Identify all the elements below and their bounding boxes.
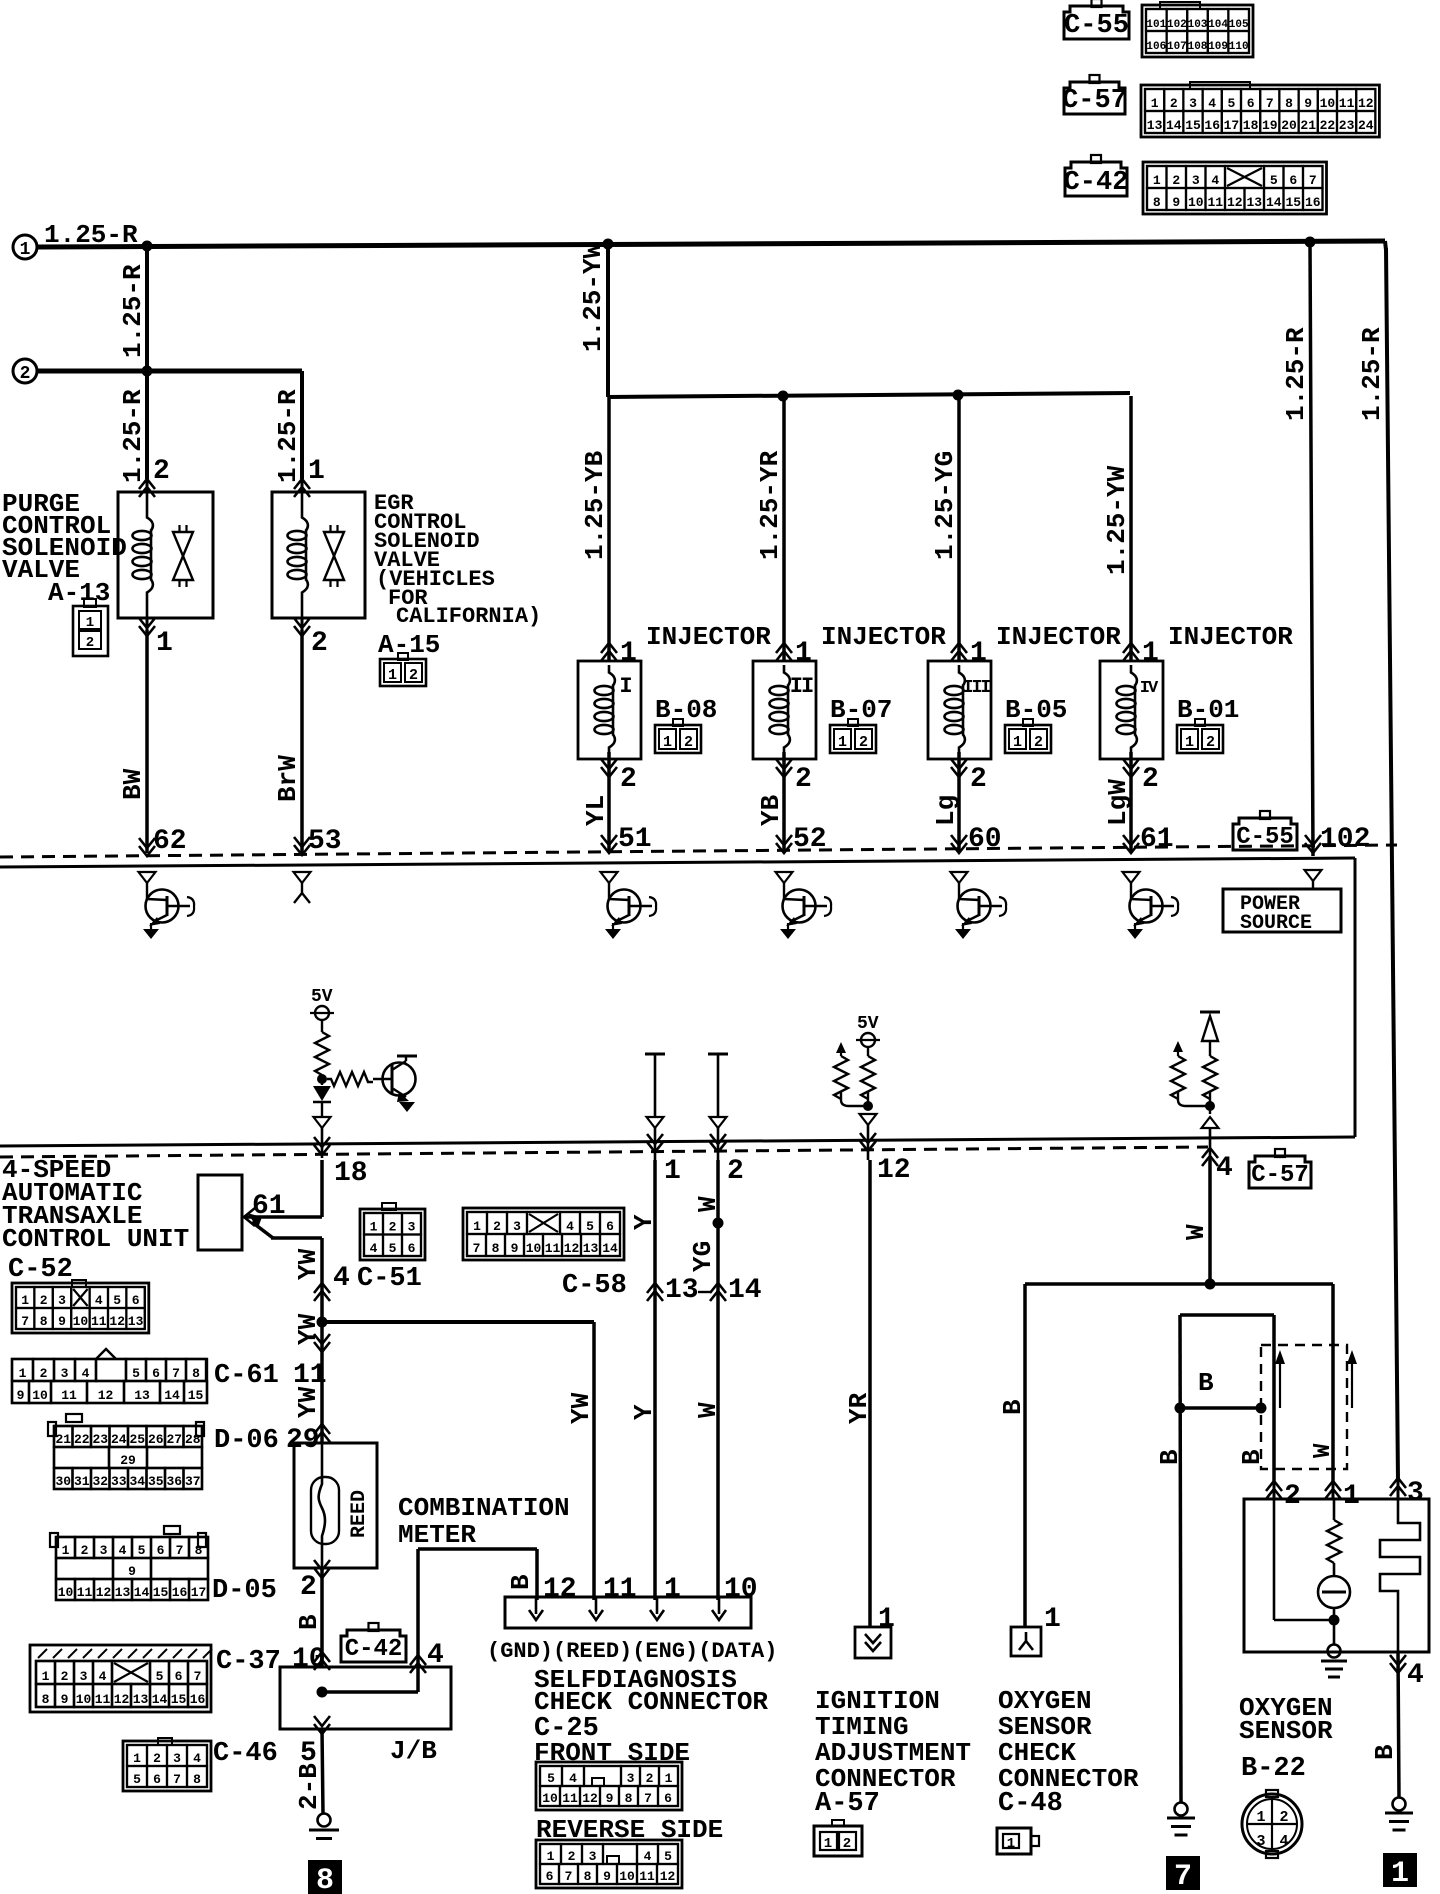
svg-text:101: 101 <box>1146 19 1166 31</box>
svg-text:2: 2 <box>86 635 94 651</box>
wire YW to check connector pin 11 <box>592 1322 596 1600</box>
svg-text:3: 3 <box>80 1669 88 1684</box>
svg-text:5: 5 <box>586 1219 594 1234</box>
svg-text:1.25-R: 1.25-R <box>273 389 303 483</box>
svg-text:YL: YL <box>581 795 611 826</box>
svg-text:11: 11 <box>639 1869 655 1884</box>
C-25 reverse side grid <box>536 1840 682 1888</box>
svg-text:1.25-YG: 1.25-YG <box>930 451 960 560</box>
injector III (B-05) box <box>928 661 991 759</box>
svg-text:Y: Y <box>629 1214 659 1230</box>
svg-text:B: B <box>294 1614 324 1630</box>
svg-text:1: 1 <box>473 1219 481 1234</box>
svg-text:2: 2 <box>61 1669 69 1684</box>
svg-text:14: 14 <box>1266 195 1282 210</box>
svg-text:30: 30 <box>55 1474 71 1489</box>
svg-text:3: 3 <box>408 1220 416 1235</box>
svg-text:12: 12 <box>660 1869 676 1884</box>
svg-text:10: 10 <box>76 1692 92 1707</box>
svg-text:1.25-R: 1.25-R <box>1357 327 1387 421</box>
svg-text:4: 4 <box>99 1669 107 1684</box>
svg-text:11: 11 <box>293 1360 327 1391</box>
svg-text:9: 9 <box>1172 195 1180 210</box>
sensor ground loop wire <box>1180 1313 1274 1317</box>
EGR valve coil <box>302 492 308 531</box>
svg-text:13: 13 <box>133 1692 149 1707</box>
wire Lg to ECU pin 60 <box>957 752 961 852</box>
svg-text:60: 60 <box>968 824 1002 855</box>
svg-text:4: 4 <box>370 1241 378 1256</box>
pin 62 chevron <box>139 838 155 856</box>
junction dot in J/B <box>317 1687 328 1698</box>
svg-text:C-52: C-52 <box>8 1255 73 1285</box>
svg-text:D-05: D-05 <box>212 1576 277 1606</box>
svg-text:1.25-YB: 1.25-YB <box>580 450 610 560</box>
svg-text:17: 17 <box>1224 118 1240 133</box>
svg-text:1: 1 <box>62 1543 70 1558</box>
injector IV (B-01) box <box>1100 661 1163 759</box>
svg-text:1: 1 <box>20 240 31 260</box>
svg-text:5V: 5V <box>311 987 333 1007</box>
svg-text:5: 5 <box>156 1669 164 1684</box>
svg-text:9: 9 <box>511 1241 519 1256</box>
svg-text:INJECTOR: INJECTOR <box>821 622 946 652</box>
svg-text:9: 9 <box>58 1314 66 1329</box>
svg-text:1: 1 <box>1256 1809 1265 1826</box>
svg-text:2: 2 <box>684 734 693 751</box>
svg-text:14: 14 <box>1166 118 1182 133</box>
wire 1.25-R right edge to oxygen sensor heater <box>1385 241 1386 250</box>
injector IV pin 1 chevron <box>1123 643 1139 661</box>
svg-text:16: 16 <box>190 1692 206 1707</box>
svg-text:2: 2 <box>153 1751 161 1766</box>
wire 1.25-R to ECU pin 102 <box>1310 242 1313 856</box>
wire W from ECU pin 4 <box>1208 1160 1212 1284</box>
svg-text:108: 108 <box>1188 41 1208 53</box>
svg-text:2: 2 <box>1142 764 1159 795</box>
check connector pin arrow x536 <box>535 1597 538 1614</box>
svg-text:2: 2 <box>1206 734 1215 751</box>
svg-text:14: 14 <box>728 1275 762 1306</box>
svg-text:1: 1 <box>86 615 94 631</box>
svg-text:18: 18 <box>1243 118 1259 133</box>
svg-text:5: 5 <box>1270 173 1278 188</box>
svg-text:1: 1 <box>795 638 812 669</box>
svg-text:2: 2 <box>409 667 418 684</box>
node 2 (circled) <box>13 359 37 383</box>
svg-text:1: 1 <box>308 456 325 487</box>
svg-text:II: II <box>790 674 813 699</box>
connector C-58 grid <box>463 1208 624 1260</box>
svg-text:22: 22 <box>1320 118 1336 133</box>
injector III pin 1 chevron <box>951 643 967 661</box>
svg-text:A-13: A-13 <box>48 578 110 608</box>
sensor cell symbol <box>1318 1576 1350 1608</box>
svg-text:2: 2 <box>620 764 637 795</box>
svg-text:B-08: B-08 <box>655 695 717 725</box>
pin 53 stub <box>294 872 311 883</box>
svg-text:1.25-YR: 1.25-YR <box>755 450 785 560</box>
svg-text:4: 4 <box>95 1293 103 1308</box>
wire 1.25-YR to injector II <box>782 396 786 661</box>
svg-text:5: 5 <box>138 1543 146 1558</box>
wire 1.25-YW from bus1 <box>606 244 610 397</box>
ECU connector dashed line (top) <box>0 845 1397 857</box>
svg-text:1: 1 <box>1343 1481 1360 1512</box>
svg-text:2: 2 <box>1284 1481 1301 1512</box>
svg-text:1: 1 <box>824 1836 832 1852</box>
svg-text:11: 11 <box>603 1574 637 1605</box>
sensor ground (case) <box>1328 1645 1341 1658</box>
pin 102 chevron <box>1305 835 1321 853</box>
svg-text:BrW: BrW <box>273 755 303 802</box>
junction dot bus2 <box>142 366 153 377</box>
svg-text:8: 8 <box>1153 195 1161 210</box>
svg-text:10: 10 <box>292 1644 326 1675</box>
svg-text:110: 110 <box>1229 41 1249 53</box>
purge valve pin 1 exit chevron <box>146 618 149 636</box>
svg-text:7: 7 <box>1309 173 1317 188</box>
svg-text:C-46: C-46 <box>213 1739 278 1769</box>
pin 18 chevron <box>314 1137 330 1155</box>
wire 1.25-R x147 bus2 to purge valve <box>145 371 149 479</box>
connector C-57 tag <box>1064 82 1125 114</box>
svg-text:B: B <box>1198 1368 1214 1398</box>
svg-text:1: 1 <box>620 638 637 669</box>
coupling arrow right <box>1351 1362 1353 1408</box>
C-57 tag at pin 4 <box>1249 1156 1311 1188</box>
svg-text:1: 1 <box>1013 734 1022 751</box>
C-42 tag at junction box <box>341 1630 406 1662</box>
oxygen sensor pin chevrons <box>1266 1481 1282 1499</box>
svg-text:27: 27 <box>166 1432 182 1447</box>
C-55 tag at pin 102 <box>1233 818 1297 850</box>
svg-text:C-57: C-57 <box>1062 86 1127 116</box>
svg-text:SOURCE: SOURCE <box>1240 912 1312 935</box>
svg-text:9: 9 <box>606 1791 614 1806</box>
self-diagnosis check connector bar <box>505 1597 751 1628</box>
transistor (pin 18 driver) <box>383 1063 416 1096</box>
svg-text:7: 7 <box>172 1366 180 1381</box>
EGR valve pin 2 exit chevron <box>301 618 304 636</box>
svg-text:2: 2 <box>568 1849 576 1864</box>
junction dot pin12 <box>863 1101 873 1111</box>
svg-text:10: 10 <box>1320 96 1336 111</box>
svg-text:W: W <box>1181 1224 1211 1240</box>
purge valve coil <box>147 492 153 531</box>
svg-text:10: 10 <box>1188 195 1204 210</box>
svg-text:4: 4 <box>644 1849 652 1864</box>
svg-text:12: 12 <box>1358 96 1374 111</box>
purge valve pin 2 entry chevron <box>139 479 155 497</box>
svg-text:4: 4 <box>333 1263 350 1294</box>
svg-text:3: 3 <box>513 1219 521 1234</box>
svg-text:24: 24 <box>1358 118 1374 133</box>
svg-text:1: 1 <box>21 1293 29 1308</box>
svg-text:6: 6 <box>153 1772 161 1787</box>
ground reference 8 <box>308 1860 342 1894</box>
svg-text:5: 5 <box>133 1772 141 1787</box>
svg-text:2: 2 <box>1170 96 1178 111</box>
svg-text:1: 1 <box>664 1574 681 1605</box>
injector III coil <box>959 665 965 686</box>
injector I pin 1 chevron <box>601 643 617 661</box>
svg-text:2: 2 <box>40 1293 48 1308</box>
C-37 pin 10 chevron <box>314 1652 330 1670</box>
svg-text:1: 1 <box>838 734 847 751</box>
svg-text:B: B <box>1370 1744 1400 1760</box>
svg-text:15: 15 <box>1185 118 1201 133</box>
junction dot oxygen branch <box>1205 1279 1216 1290</box>
connector icon A-15 (1|2) <box>380 659 426 686</box>
connector C-46 grid <box>123 1741 211 1791</box>
ECU box top edge <box>0 858 1355 867</box>
svg-text:15: 15 <box>153 1585 169 1600</box>
svg-text:3: 3 <box>58 1293 66 1308</box>
svg-text:10: 10 <box>526 1241 542 1256</box>
check connector pin arrow x657 <box>656 1597 659 1614</box>
svg-text:3: 3 <box>1407 1478 1424 1509</box>
svg-text:4: 4 <box>119 1543 127 1558</box>
svg-text:6: 6 <box>152 1366 160 1381</box>
svg-text:6: 6 <box>175 1669 183 1684</box>
svg-text:A-15: A-15 <box>378 630 440 660</box>
svg-text:1: 1 <box>1153 173 1161 188</box>
svg-text:6: 6 <box>408 1241 416 1256</box>
svg-text:C-61: C-61 <box>214 1361 279 1391</box>
svg-text:16: 16 <box>1204 118 1220 133</box>
svg-text:C-57: C-57 <box>1251 1162 1309 1189</box>
junction dot bus1/injector branch <box>603 239 614 250</box>
POWER SOURCE box <box>1223 889 1341 932</box>
svg-text:10: 10 <box>73 1314 89 1329</box>
svg-text:11: 11 <box>562 1791 578 1806</box>
svg-text:12: 12 <box>543 1574 577 1605</box>
D-05 pin 2 chevron <box>320 1568 324 1667</box>
svg-text:14: 14 <box>164 1388 180 1403</box>
svg-text:INJECTOR: INJECTOR <box>1168 622 1293 652</box>
wire W to oxygen sensor pin 1 <box>1331 1284 1335 1481</box>
svg-text:8: 8 <box>193 1772 201 1787</box>
junction block J/B box <box>280 1667 451 1729</box>
svg-text:5: 5 <box>547 1771 555 1786</box>
svg-text:11: 11 <box>61 1388 77 1403</box>
ECU box bottom edge <box>0 1137 1355 1146</box>
svg-text:5: 5 <box>389 1241 397 1256</box>
svg-text:7: 7 <box>1266 96 1274 111</box>
svg-text:1: 1 <box>1044 1604 1061 1635</box>
svg-text:21: 21 <box>55 1432 71 1447</box>
svg-text:102: 102 <box>1167 19 1187 31</box>
svg-text:3: 3 <box>589 1849 597 1864</box>
ground (heater) <box>1393 1798 1406 1811</box>
transaxle pin 61 arrow <box>244 1208 255 1226</box>
svg-text:11: 11 <box>91 1314 107 1329</box>
svg-text:6: 6 <box>132 1293 140 1308</box>
svg-text:4: 4 <box>1407 1660 1424 1691</box>
junction dot bus1/purge branch <box>142 241 153 252</box>
svg-text:107: 107 <box>1167 41 1187 53</box>
svg-text:36: 36 <box>166 1474 182 1489</box>
svg-text:13: 13 <box>1147 118 1163 133</box>
svg-text:6: 6 <box>1289 173 1297 188</box>
junction dot bus1/power-source branch <box>1305 237 1316 248</box>
svg-text:2: 2 <box>20 364 31 384</box>
ECU pin 4 triangle (up) <box>1209 1110 1211 1114</box>
ECU connector dashed line (bottom) <box>0 1147 1208 1157</box>
svg-text:METER: METER <box>398 1520 476 1550</box>
injector I (B-08) box <box>578 661 641 759</box>
svg-text:COMBINATION: COMBINATION <box>398 1493 570 1523</box>
driver transistor for pin 62 <box>139 872 156 883</box>
svg-text:5: 5 <box>664 1849 672 1864</box>
svg-text:4: 4 <box>1216 1153 1233 1184</box>
svg-text:6: 6 <box>1247 96 1255 111</box>
svg-text:6: 6 <box>606 1219 614 1234</box>
svg-text:2: 2 <box>843 1836 851 1852</box>
svg-text:YW: YW <box>293 1386 323 1418</box>
connector icon B-22 (round) <box>1242 1794 1302 1854</box>
svg-text:1.25-YW: 1.25-YW <box>1102 465 1132 575</box>
svg-text:1: 1 <box>42 1669 50 1684</box>
pin 53 chevron <box>294 837 310 855</box>
wire BW to ECU pin 62 <box>145 630 149 853</box>
svg-text:1: 1 <box>1391 1857 1409 1891</box>
svg-text:11: 11 <box>1207 195 1223 210</box>
C-25 front side grid <box>536 1762 682 1810</box>
EGR valve pin 1 entry chevron <box>294 479 310 497</box>
C-61 pin 11 chevron <box>320 1322 324 1443</box>
pin 12 chevron <box>860 1133 876 1151</box>
pin 4 chevron <box>1202 1148 1218 1166</box>
ECU pin 12 triangle <box>860 1114 877 1125</box>
svg-text:REED: REED <box>348 1490 371 1538</box>
wire 1.25-YB to injector I <box>607 396 611 661</box>
svg-text:W: W <box>693 1402 723 1418</box>
svg-text:Y: Y <box>629 1404 659 1420</box>
svg-text:1: 1 <box>1007 1836 1015 1852</box>
svg-text:3: 3 <box>1256 1833 1265 1850</box>
svg-text:7: 7 <box>473 1241 481 1256</box>
connector icon A-57 <box>814 1826 862 1856</box>
svg-text:5: 5 <box>132 1366 140 1381</box>
svg-text:29: 29 <box>286 1425 320 1456</box>
svg-text:2: 2 <box>389 1220 397 1235</box>
connector C-55 tag <box>1064 6 1129 39</box>
svg-text:7: 7 <box>173 1772 181 1787</box>
svg-text:15: 15 <box>1285 195 1301 210</box>
svg-text:2: 2 <box>1034 734 1043 751</box>
svg-text:1: 1 <box>665 1771 673 1786</box>
junction dot pin4 <box>1205 1101 1215 1111</box>
svg-text:2: 2 <box>970 764 987 795</box>
svg-text:D-06: D-06 <box>214 1426 279 1456</box>
svg-text:1: 1 <box>388 667 397 684</box>
svg-text:1: 1 <box>547 1849 555 1864</box>
connector C-52 grid <box>12 1283 149 1333</box>
pin 51 chevron <box>601 835 617 853</box>
wire bus 1.25-R from node 1 <box>37 241 1385 247</box>
svg-text:12: 12 <box>1227 195 1243 210</box>
svg-text:12: 12 <box>109 1314 125 1329</box>
heater pin 4 chevron <box>1390 1655 1406 1673</box>
svg-text:11: 11 <box>95 1692 111 1707</box>
svg-text:11: 11 <box>545 1241 561 1256</box>
svg-text:33: 33 <box>111 1474 127 1489</box>
pin 52 chevron <box>776 835 792 853</box>
svg-text:61: 61 <box>252 1191 286 1222</box>
connector icon B-05 (1|2) <box>1005 725 1051 753</box>
pin 2 chevron <box>710 1134 726 1152</box>
connector icon B-08 (1|2) <box>655 725 701 753</box>
svg-text:C-37: C-37 <box>216 1647 281 1677</box>
svg-text:8: 8 <box>625 1791 633 1806</box>
svg-text:9: 9 <box>17 1388 25 1403</box>
ground reference 7 <box>1166 1856 1200 1890</box>
svg-text:106: 106 <box>1146 41 1166 53</box>
svg-text:1.25-R: 1.25-R <box>118 264 148 358</box>
driver transistor for pin 52 <box>776 872 793 883</box>
svg-text:61: 61 <box>1140 824 1174 855</box>
svg-text:7: 7 <box>194 1669 202 1684</box>
svg-text:13: 13 <box>665 1275 699 1306</box>
svg-text:19: 19 <box>1262 118 1278 133</box>
driver transistor for pin 51 <box>601 872 618 883</box>
svg-text:YG: YG <box>688 1241 718 1272</box>
wire 1.25-YW to injector IV <box>1129 396 1133 661</box>
svg-text:12: 12 <box>114 1692 130 1707</box>
injector I coil <box>609 665 615 686</box>
svg-text:10: 10 <box>619 1869 635 1884</box>
svg-text:C-42: C-42 <box>345 1636 403 1663</box>
resistor (pin 18 pull-up) <box>315 1032 329 1075</box>
svg-text:FRONT SIDE: FRONT SIDE <box>534 1738 690 1768</box>
svg-text:SENSOR: SENSOR <box>1239 1716 1333 1746</box>
svg-text:3: 3 <box>1189 96 1197 111</box>
injector IV coil <box>1131 665 1137 686</box>
svg-text:1: 1 <box>664 1156 681 1187</box>
svg-text:1: 1 <box>133 1751 141 1766</box>
junction dot pin18 <box>317 1074 327 1084</box>
wire YB to ECU pin 52 <box>782 752 786 852</box>
power source box pin 102 <box>1305 870 1322 881</box>
junction dot injector II <box>778 391 789 402</box>
driver transistor for pin 61 <box>1123 872 1140 883</box>
svg-text:I: I <box>619 674 632 699</box>
svg-text:15: 15 <box>171 1692 187 1707</box>
svg-text:9: 9 <box>603 1869 611 1884</box>
wire 1.25-YG to injector III <box>957 396 961 661</box>
check connector pin arrow x596 <box>595 1597 598 1614</box>
svg-text:2: 2 <box>727 1156 744 1187</box>
pull resistor pin12 left <box>836 1042 846 1053</box>
svg-text:3: 3 <box>1192 173 1200 188</box>
svg-text:(GND)(REED)(ENG)(DATA): (GND)(REED)(ENG)(DATA) <box>487 1639 777 1664</box>
EGR control solenoid valve A-15 box <box>272 492 365 618</box>
ground (sensor shield) <box>1175 1803 1188 1816</box>
svg-text:13: 13 <box>583 1241 599 1256</box>
pull resistor pin4 left <box>1173 1041 1183 1052</box>
svg-text:2: 2 <box>311 628 328 659</box>
svg-text:7: 7 <box>21 1314 29 1329</box>
svg-text:12: 12 <box>564 1241 580 1256</box>
svg-text:YR: YR <box>844 1392 874 1424</box>
svg-text:6: 6 <box>546 1869 554 1884</box>
wire Y to check connector pin 1 <box>653 1160 657 1600</box>
purge valve symbol <box>178 525 180 533</box>
injector II pin 2 chevron <box>776 759 792 777</box>
svg-text:4: 4 <box>1211 173 1219 188</box>
